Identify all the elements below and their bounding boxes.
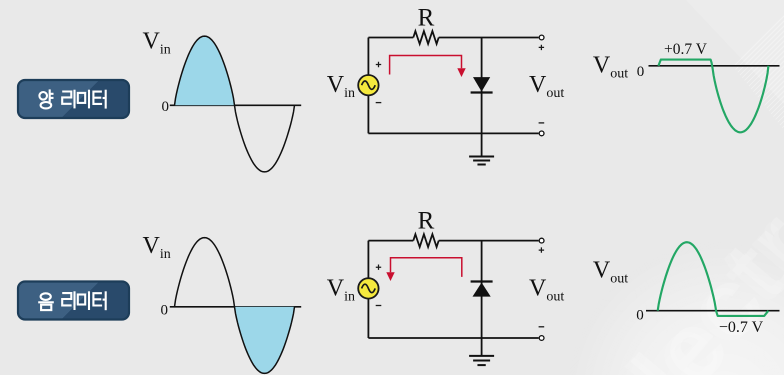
svg-text:0: 0 — [636, 308, 644, 324]
svg-text:0: 0 — [161, 303, 169, 319]
svg-text:0: 0 — [162, 99, 170, 115]
svg-text:R: R — [418, 208, 435, 235]
svg-text:R: R — [418, 5, 435, 32]
svg-text:−0.7 V: −0.7 V — [719, 319, 764, 336]
svg-text:0: 0 — [637, 64, 645, 80]
svg-text:+0.7 V: +0.7 V — [664, 41, 708, 58]
